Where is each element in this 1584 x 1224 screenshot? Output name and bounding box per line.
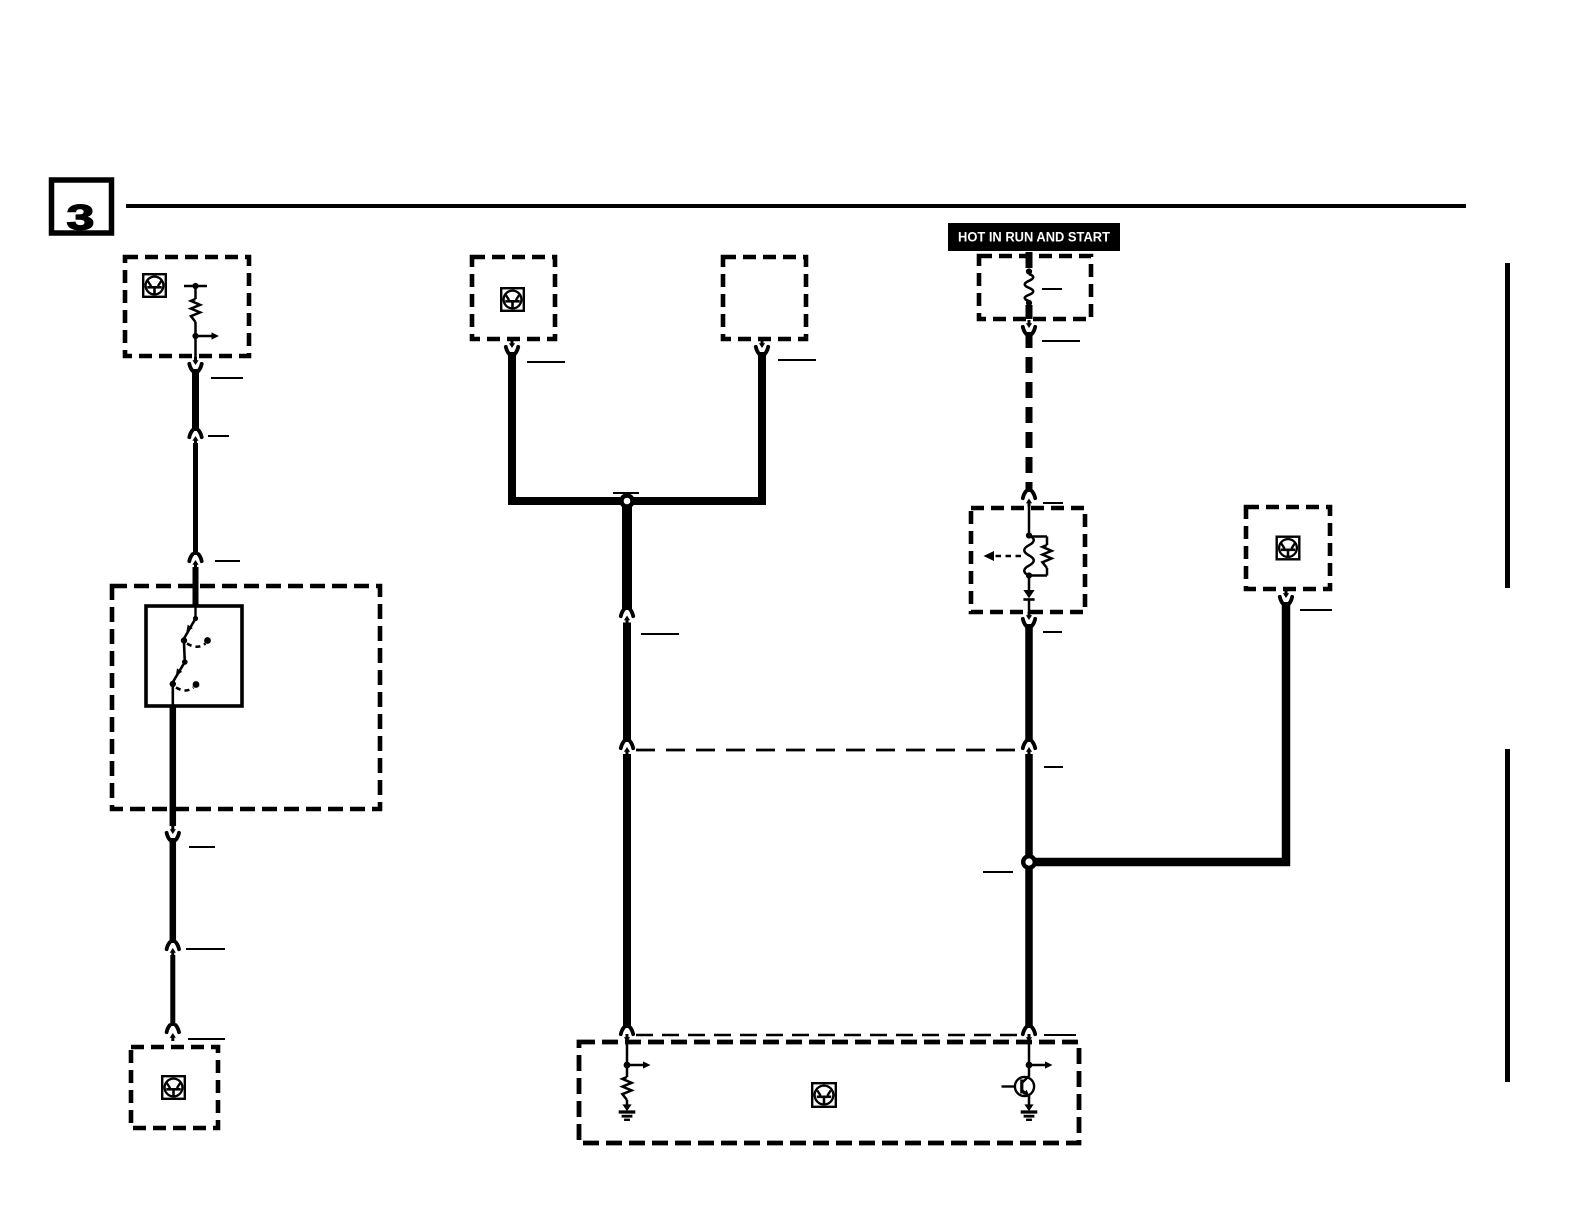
right margin bar lower [1505,749,1510,1082]
connector cup [621,609,633,616]
connector label right [211,377,243,379]
wire coil to diode [1028,576,1031,591]
switch alt contact 1 [204,637,211,644]
connector pin [192,436,198,444]
resistor parallel with coil [1042,537,1051,576]
connector cup [189,364,201,371]
connector pin [624,616,630,624]
connector pin into relay box [1026,499,1032,507]
wire into relay coil [1028,506,1031,535]
connector label right [778,359,816,361]
connector pin below box A [509,340,515,348]
connector label right [189,846,215,848]
fuse label line [1042,288,1062,290]
bottom control unit box (dashed) [579,1042,1079,1143]
connector pin below relay box [1026,612,1032,620]
wire center segment [623,623,631,743]
wire coil parallel branch top [1029,535,1047,538]
switch throw arc 2 [176,688,194,691]
page number badge 3 [52,180,112,238]
connector label right [1043,502,1063,504]
connector cup above bottom box right [1023,1027,1035,1034]
node relay coil bottom [1026,572,1032,578]
connector pin below right box [1283,590,1289,598]
connector pin below switch box [170,826,176,834]
node with arrow bottom right [1026,1061,1053,1068]
top horizontal rule [126,204,1466,208]
wire label below fuse [1042,340,1080,342]
junction label left [983,871,1013,873]
switch alt contact 2 [193,681,200,688]
connector cup [189,430,201,437]
wire right branch to junction [1033,602,1286,862]
connector cup above bottom box left [621,1027,633,1034]
wire left segment 2 [193,443,198,555]
connector pin into box L3 [170,1033,176,1041]
connector label right [1044,766,1063,768]
connector cup [621,741,633,748]
switch inner box [146,606,242,706]
relay coil K1 [1024,535,1034,576]
connector cup [189,554,201,561]
icon in bottom box [812,1083,836,1107]
connector label right [208,435,229,437]
wire switch output [170,706,177,826]
wire bottom right entry [1028,1041,1031,1065]
icon steering column switch [1277,537,1300,560]
connector pin below fuse box [1026,320,1032,328]
switch link wire [183,643,186,662]
wire fuse output stub [1026,305,1033,319]
connector pin into bottom box left [624,1034,630,1042]
terminal bar in L1 [184,283,207,289]
connector cup [1280,597,1292,604]
switch node mid [182,659,188,665]
wire fuse feed stub [1026,252,1033,268]
fuse box (dashed) [979,256,1091,319]
node relay coil top [1026,532,1032,538]
node with arrow in L1 [192,332,219,339]
component box A (dashed) [472,257,555,339]
wire center long segment [623,754,631,1028]
connector cup [167,942,179,949]
wire transistor to ground [1028,1096,1031,1105]
connector cup [167,833,179,840]
relay box (dashed) [971,508,1085,612]
connector label right [527,361,565,363]
resistor bottom left [622,1077,631,1100]
wire diode to box edge [1028,600,1031,614]
wire switch feed [194,607,196,618]
right margin bar upper [1505,263,1510,588]
connector cup end of dashed wire [1023,491,1035,498]
splice node [619,493,635,509]
connector cup top of dashed wire [1023,327,1035,334]
wire into switch box [193,567,199,607]
connector pin into bottom box right [1026,1034,1032,1042]
ground bottom right [1021,1104,1038,1119]
switch pole 2 [173,662,185,682]
connector cup end of wire [167,1025,179,1032]
connector cup top of wire [1023,619,1035,626]
power label HOT IN RUN AND START [948,223,1120,251]
icon in box A [501,288,524,311]
component box L3 (dashed) [131,1047,218,1128]
ground bottom left [619,1104,636,1119]
splice label above [613,492,639,494]
node with arrow bottom left [624,1061,651,1068]
switch contact 1 [181,637,187,643]
interconnect dashed line upper [636,749,1021,752]
svg-text:HOT IN RUN AND START: HOT IN RUN AND START [958,230,1111,245]
wire node to resistor [626,1065,629,1077]
connector label right [641,633,679,635]
switch pole 1 [184,619,195,639]
wire bottom left entry [626,1041,629,1065]
interconnect dashed line lower [636,1034,1021,1037]
wire bar to resistor [194,286,197,299]
wire node to transistor [1028,1065,1031,1077]
svg-text:3: 3 [67,199,95,238]
connector label right [186,948,225,950]
connector pin [192,560,198,568]
switch contact 2 [170,681,176,687]
icon in box L3 [162,1076,185,1099]
wire resistor to node [194,322,197,336]
component box B (dashed) [723,257,806,339]
icon in box L1 [143,274,166,297]
switch throw arc 1 [187,644,206,647]
connector pin below box L1 [192,357,198,365]
wire node to box edge [194,336,197,357]
resistor in L1 [191,299,200,322]
connector pin [170,948,176,956]
wire left lower segment 1 [170,838,177,943]
fuse F1 [1025,268,1034,306]
relay actuation dashed arrow [984,551,1022,561]
wire relay output [1025,624,1033,742]
right component box (dashed) [1246,507,1330,589]
connector label right [1044,1034,1076,1036]
wire dashed harness segment [1026,332,1033,492]
wire resistor to ground [626,1100,629,1105]
component box L1 (dashed) [125,257,249,356]
connector label right [1043,631,1062,633]
wire coil parallel branch bottom [1029,574,1047,577]
wire to junction and bottom box [1025,754,1033,1028]
wire left lower segment 2 [170,955,175,1026]
wire from box B [631,352,762,501]
connector label right [1300,609,1332,611]
switch node top [193,616,198,621]
connector label right [215,560,240,562]
diode D1 [1023,590,1034,600]
connector cup [1023,741,1035,748]
connector cup [506,347,518,354]
junction node open [1021,854,1037,870]
wire splice down [622,496,632,610]
connector pin [1026,747,1032,755]
switch outer box (dashed) [112,586,380,809]
connector label right [188,1038,225,1040]
connector pin [624,747,630,755]
wire from box A [512,352,623,501]
connector pin below box B [759,340,765,348]
connector cup [756,347,768,354]
transistor Q1 [1002,1076,1035,1097]
wire left segment 1 [192,369,199,431]
wire switch output inner [172,684,175,707]
